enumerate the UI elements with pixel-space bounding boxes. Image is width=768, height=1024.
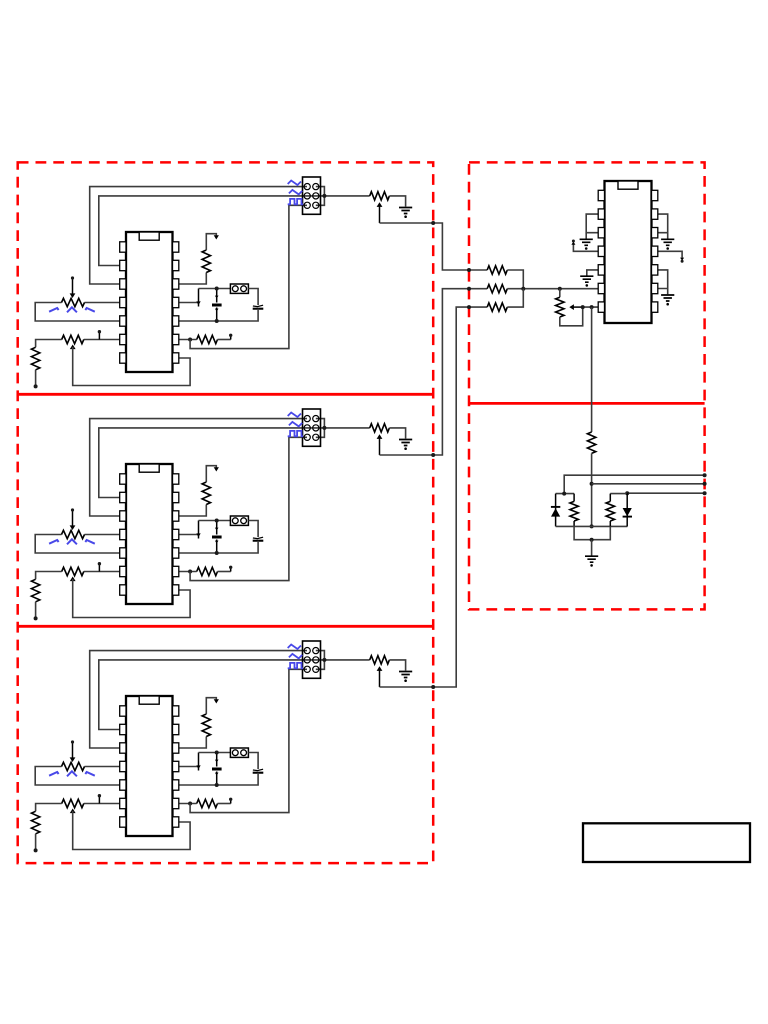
wire C12 bottom to U2 pin5-right [179,541,258,553]
dashed red border of mixer section (right box) [469,162,705,609]
wire pot R1 left terminal loop to U1 pin5 [35,303,126,322]
IC U1 left pins [120,242,126,252]
output line 1 from left clipper branch [564,475,704,493]
potentiometer R21 body [62,762,85,770]
header J3 right bracket [316,651,325,670]
terminal arrow after R4 [230,337,232,340]
blue adjustment marks of R11 [49,539,95,544]
resistor R37 [609,494,611,502]
resistor R35 (vertical) [587,432,595,453]
header J1 row3 wire down to pin6 junction [190,205,307,348]
resistor R24 [197,799,218,807]
ground at U4 pin5 left [580,276,593,282]
blue sine symbol row2 [289,190,302,195]
red divider line between oscillator 2 and 3 [18,625,434,628]
wire top of capacitor loop to jumper JP3 [199,752,231,754]
blue sine symbol row1 [288,181,301,186]
mixer resistor R33 [487,303,507,311]
red divider line in right box [469,402,705,405]
wire C22 bottom to U3 pin5-right [179,773,258,785]
power hook arrow above R15 [206,466,216,482]
wire U3 pin3-right to resistor R25 [179,737,206,749]
terminal arrow after R14 [230,569,232,572]
resistor R13 [31,579,39,602]
wire from wiper junction down through resistor R35 [591,307,593,432]
clipper bottom bar [556,525,628,527]
wire R16 to ground [389,428,405,439]
header J2 right bracket [316,419,325,438]
IC U2 body [126,464,173,604]
wire U1 pin4-right with down arrow junction [179,302,199,304]
IC U1 body [126,232,173,372]
left clipper branch top bar [556,493,575,495]
IC U4 body [605,181,652,323]
mixer resistor R32 [487,285,507,293]
header J1 body [303,177,321,214]
potentiometer R11 wiper arrow [72,511,74,527]
dashed red border of oscillator section (left box) [18,162,434,863]
wire R6 to ground [389,196,405,207]
wire R13 bottom terminal [35,602,37,619]
wire jumper to capacitor C2 [248,289,258,306]
ground at U4 pin2/3 right [661,239,674,245]
diode D2 (pointing down) [626,493,628,526]
wire U3 pin4-right with down arrow junction [179,766,199,768]
jumper JP3 [230,748,248,757]
wire junction down to pot R34 [558,287,562,291]
wire U1 pin2 loop to header J1 row2 and on to pot R6 [99,196,370,266]
blue square wave symbol row3 [288,663,303,668]
terminal arrow on pin6 wire [98,797,100,804]
output pot R26 body [370,656,390,664]
wire pot R12 left terminal down to resistor R13 [36,572,62,580]
wire U3 pin6 right junction through resistor R24 [179,803,197,805]
pot R6 wiper arrow [377,202,383,207]
wire U4 pin2/pin3 right bracket to ground [658,214,668,233]
IC U4 right pins [652,190,658,200]
wire U4 pin2/pin3 left bracket to ground [586,214,598,233]
wire U1 pin3 loop to header J1 row1 [90,187,307,284]
junction at pin6 branch [188,338,192,342]
clipper ground symbol [585,556,598,562]
IC U2 left pins [120,474,126,484]
power hook arrow above R5 [206,234,216,250]
IC U3 left pins [120,706,126,716]
ground at R6 [399,208,412,214]
junction at pin6 branch [188,802,192,806]
resistor R15 (vertical) [202,482,210,505]
potentiometer R21 wiper arrow [72,743,74,759]
blue square wave symbol row3 [288,199,303,204]
wire R33 to summing bar [507,289,523,307]
mixer resistor R31 [487,266,507,274]
potentiometer R2 body [62,335,84,343]
wire U2 pin2 loop to header J2 row2 and on to pot R16 [99,428,370,498]
resistor R4 [197,335,218,343]
resistor R3 [31,347,39,370]
wire oscillator2 output to mixer middle resistor [380,289,488,455]
IC U4 left pins [598,190,604,200]
ground at R16 [399,440,412,446]
blue adjustment marks of R1 [49,307,95,312]
resistor R36 [573,494,575,502]
wire U4 pin4 left to terminal arrow [573,245,598,252]
wire pot R12 right terminal to U2 pin6 [84,571,126,573]
potentiometer R34 body (vertical) [556,297,564,317]
capacitor C22 plates [253,769,263,770]
blue adjustment marks of R21 [49,771,95,776]
title block rectangle [583,823,750,862]
resistor R25 (vertical) [202,714,210,737]
wire top of capacitor loop to jumper JP2 [199,520,231,522]
wire oscillator1 output to mixer top resistor [380,223,488,270]
blue sine symbol row1 [288,413,301,418]
pot R2 wiper arrow and wire to U1 pin14 [70,345,76,350]
wire U2 pin3-right to resistor R15 [179,505,206,517]
wire top of capacitor loop to jumper JP1 [199,288,231,290]
output line 3 from right clipper branch [627,492,704,494]
wire U2 pin4-right with down arrow junction [179,534,199,536]
ground at R26 [399,672,412,678]
wire R31 to summing bar [507,270,523,289]
wire C2 bottom to U1 pin5-right [179,309,258,321]
wire pot R22 right terminal to U3 pin6 [84,803,126,805]
resistor R14 [197,567,218,575]
pot R16 wiper arrow [377,434,383,439]
electrolytic capacitor C21 [216,753,218,767]
wire oscillator3 output to mixer bottom resistor [380,307,488,687]
wire pot R2 right terminal to U1 pin6 [84,339,126,341]
wire to clipper ground [591,540,593,556]
terminal arrow on pin6 wire [98,565,100,572]
jumper JP1 [230,284,248,293]
resistor R5 (vertical) [202,250,210,273]
terminal arrow on pin6 wire [98,333,100,340]
wire U2 pin6 right junction through resistor R14 [179,571,197,573]
terminal arrow after R24 [230,801,232,804]
electrolytic capacitor C11 [216,521,218,535]
right clipper branch top bar [610,493,627,495]
wire jumper to capacitor C12 [248,521,258,538]
blue sine symbol row2 [289,422,302,427]
wire R3 bottom terminal [35,370,37,387]
wire wiper row to U4 pin7 [583,306,601,308]
blue square wave symbol row3 [288,431,303,436]
wire R34 bottom loop to wiper [560,307,583,326]
jumper JP2 [230,516,248,525]
wire pot R21 left terminal loop to U3 pin5 [35,767,126,786]
pot R22 wiper arrow and wire to U3 pin14 [70,809,76,814]
potentiometer R12 body [62,567,84,575]
wire jumper to capacitor C22 [248,753,258,770]
IC U3 right pins [173,706,179,716]
resistor R23 [31,811,39,834]
wire U1 pin6 right junction through resistor R4 [179,339,197,341]
wire R32 through summing node to U4 pin6 [507,288,600,290]
ground at U4 pin5/6 right [661,295,674,301]
wire pot R2 left terminal down to resistor R3 [36,340,62,348]
IC U3 body [126,696,173,836]
wire U4 pin4 right to terminal arrow [658,251,683,257]
wire U2 pin3 loop to header J2 row1 [90,419,307,516]
red divider line between oscillator 1 and 2 [18,393,434,396]
wire U4 pin5/pin6 right bracket to ground [658,270,668,289]
R34 wiper arrow [572,306,583,308]
power hook arrow above R25 [206,698,216,714]
wire U1 pin3-right to resistor R5 [179,273,206,285]
ground at U4 pin2/3 left [580,239,593,245]
wire pot R11 right terminal to U2 pin4 [85,534,127,536]
potentiometer R1 body [62,298,85,306]
blue sine symbol row2 [289,654,302,659]
electrolytic capacitor C1 [216,289,218,303]
header J3 row3 wire down to pin6 junction [190,669,307,812]
IC U1 right pins [173,242,179,252]
header J2 row3 wire down to pin6 junction [190,437,307,580]
wire pot R22 left terminal down to resistor R23 [36,804,62,812]
wire R23 bottom terminal [35,834,37,851]
wire R26 to ground [389,660,405,671]
header J2 body [303,409,321,446]
diode D1 (pointing up) [555,494,557,527]
pot R12 wiper arrow and wire to U2 pin14 [70,577,76,582]
wire pot R11 left terminal loop to U2 pin5 [35,535,126,554]
wire U3 pin2 loop to header J3 row2 and on to pot R26 [99,660,370,730]
wire pot R1 right terminal to U1 pin4 [85,302,127,304]
output line 2 from center node [592,483,705,485]
IC U2 right pins [173,474,179,484]
header J1 right bracket [316,187,325,206]
wire pot R21 right terminal to U3 pin4 [85,766,127,768]
junction to clipper section [590,305,594,309]
wire U3 pin3 loop to header J3 row1 [90,651,307,748]
capacitor C2 plates [253,305,263,306]
output pot R6 body [370,192,390,200]
wire U4 pin5 left to ground [587,270,599,276]
header J3 body [303,641,321,678]
potentiometer R22 body [62,799,84,807]
potentiometer R1 wiper arrow [72,279,74,295]
potentiometer R11 body [62,530,85,538]
junction at pin6 branch [188,570,192,574]
blue sine symbol row1 [288,645,301,650]
ground return bracket [574,526,610,539]
capacitor C12 plates [253,537,263,538]
output pot R16 body [370,424,390,432]
pot R26 wiper arrow [377,666,383,671]
wire R35 bottom to clipper bottom bar [591,453,593,526]
